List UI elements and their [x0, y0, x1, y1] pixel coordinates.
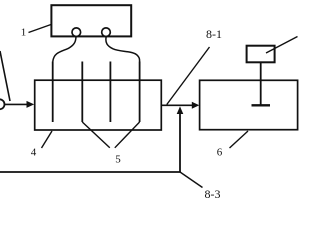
- electrode 4: [139, 62, 141, 123]
- stirrer motor box 7: [247, 46, 275, 63]
- settling tank 6: [200, 80, 298, 129]
- svg-text:8-1: 8-1: [206, 27, 222, 41]
- electrode 1: [52, 62, 54, 123]
- label 7 pointer: [266, 37, 298, 54]
- label 4 pointer: [42, 131, 53, 148]
- svg-text:5: 5: [115, 154, 121, 166]
- electrode 3: [109, 62, 111, 123]
- label 5 pointer left: [82, 122, 110, 148]
- pump circle: [0, 99, 5, 109]
- arrow into tank 4: [5, 103, 29, 105]
- stirrer paddle: [252, 104, 271, 106]
- svg-text:8-3: 8-3: [205, 187, 221, 200]
- svg-text:6: 6: [217, 147, 223, 159]
- connector tank 4 to tank 6 with arrow: [161, 104, 194, 106]
- recycle up arrow at node 8-1: [177, 106, 184, 114]
- label 1 pointer: [29, 25, 52, 33]
- svg-text:1: 1: [21, 27, 27, 39]
- label 6 pointer: [230, 131, 249, 148]
- feed funnel line: [0, 51, 10, 101]
- recycle bottom line 8-3: [0, 171, 181, 173]
- label 8-3 pointer: [180, 172, 203, 188]
- terminal circle right: [102, 28, 111, 37]
- label 8-1 pointer: [167, 47, 210, 105]
- wire lead left (circle to electrode 1): [53, 37, 76, 62]
- stirrer shaft: [260, 63, 262, 105]
- power supply box 1: [51, 5, 131, 36]
- svg-text:4: 4: [31, 147, 37, 159]
- label 5 pointer right: [115, 122, 140, 148]
- electrode 2: [81, 62, 83, 123]
- electrolysis tank 4: [35, 80, 162, 130]
- wire lead right (circle to electrode 4): [106, 37, 140, 62]
- terminal circle left: [72, 28, 81, 37]
